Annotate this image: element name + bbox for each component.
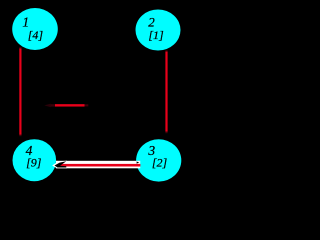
- wire edge 3->4 (red, over white band): [60, 164, 141, 167]
- node 2: [136, 10, 181, 51]
- node 3: [136, 139, 181, 181]
- node 4: [13, 139, 57, 181]
- wire edge 4->3 highlighted (white band, bottom): [56, 161, 140, 169]
- wire relax-arrow (red horizontal dash, middle): [44, 104, 51, 108]
- wire edge 2->3 (red, right vertical): [165, 52, 167, 132]
- wire faint end caps: [19, 47, 21, 48]
- svg-text:[9]: [9]: [26, 156, 42, 170]
- arrowhead black fill pointing at node 4: [55, 161, 67, 167]
- svg-text:[2]: [2]: [152, 156, 168, 170]
- svg-text:[1]: [1]: [148, 28, 164, 42]
- arrowhead white outline at node 4: [52, 161, 67, 169]
- arrowhead black notch at node 3 end of white band: [137, 162, 140, 164]
- node 1: [12, 8, 58, 50]
- svg-text:[4]: [4]: [28, 28, 44, 42]
- wire edge 1->4 (red, left vertical): [19, 48, 21, 135]
